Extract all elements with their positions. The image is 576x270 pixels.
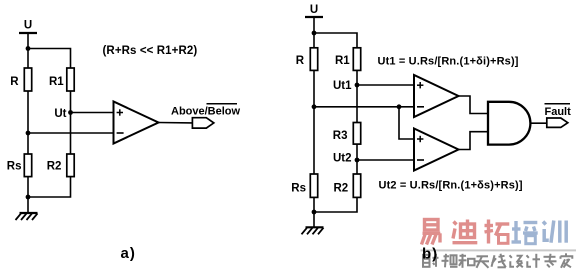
resistor R2: [353, 174, 360, 197]
node Ut: [68, 110, 73, 115]
watermark slogan pin (gray): [442, 254, 458, 267]
node C (ground junction): [26, 195, 31, 200]
svg-text:U: U: [310, 4, 318, 16]
svg-text:Ut: Ut: [54, 108, 66, 120]
svg-text:(R+Rs << R1+R2): (R+Rs << R1+R2): [103, 45, 198, 57]
wire node B to op-amp inverting input: [28, 132, 114, 134]
wire supply to node A: [27, 33, 29, 68]
wire R2 bottom to ground node: [314, 197, 357, 212]
wire Rs bottom to ground node: [313, 197, 315, 227]
svg-text:Above/Below: Above/Below: [171, 106, 241, 118]
wire node E to comparator 1 inverting input: [314, 106, 414, 108]
watermark underline: [421, 249, 576, 251]
resistor R1: [353, 48, 360, 71]
watermark slogan zhuan (gray): [544, 254, 557, 267]
node G (ground junction): [312, 210, 317, 215]
svg-text:R1: R1: [49, 76, 64, 88]
resistor R2: [67, 154, 74, 177]
wire R1 bottom to node Ut1: [356, 70, 358, 122]
watermark slogan she2 (gray): [510, 255, 523, 267]
output flag Above/Below: [192, 118, 213, 128]
AND gate U4: [488, 102, 530, 145]
wire comparator 2 output to AND gate: [459, 132, 489, 150]
node B (left divider tap): [26, 131, 31, 136]
watermark glyph di (pink): [453, 220, 478, 243]
wire R bottom to node B: [27, 91, 29, 154]
watermark slogan ji (gray): [527, 254, 541, 268]
wire node Ut2 to comparator 2 inverting input: [357, 159, 414, 161]
node E (left divider tap): [312, 104, 317, 109]
watermark glyph yi (pink): [422, 220, 441, 245]
svg-text:Rs: Rs: [291, 182, 306, 194]
svg-text:R: R: [296, 55, 305, 67]
wire Rs bottom to ground node: [27, 177, 29, 213]
resistor Rs: [310, 174, 317, 197]
node Ut1: [355, 83, 360, 88]
svg-text:R1: R1: [335, 55, 350, 67]
wire R1 bottom to node Ut: [70, 91, 72, 113]
svg-text:R3: R3: [333, 130, 348, 142]
resistor R: [24, 68, 31, 91]
wire node Ut to op-amp non-inverting input: [71, 112, 114, 114]
resistor R: [310, 48, 317, 71]
svg-text:Ut1 = U.Rs/[Rn.(1+δi)+Rs)]: Ut1 = U.Rs/[Rn.(1+δi)+Rs)]: [378, 55, 519, 67]
wire R3 bottom to node Ut2: [356, 144, 358, 174]
watermark slogan tian (gray): [476, 256, 490, 268]
watermark slogan he (gray): [459, 254, 475, 268]
comparator U3: [414, 129, 459, 171]
watermark glyph xun (blue): [543, 221, 566, 243]
resistor R3: [353, 123, 360, 145]
ground symbol b: [302, 227, 324, 234]
wire supply to node D: [313, 17, 315, 48]
watermark slogan xian (gray): [492, 254, 506, 267]
supply rail symbol U: [19, 32, 37, 34]
comparator U2: [414, 75, 459, 117]
watermark slogan jia (gray): [561, 253, 573, 267]
svg-text:U: U: [24, 20, 32, 32]
wire node Ut down to R2: [70, 113, 72, 155]
ground symbol a: [16, 213, 38, 220]
svg-text:Ut1: Ut1: [333, 80, 352, 92]
op-amp U1 (comparator): [114, 102, 159, 144]
node D (top junction): [312, 31, 317, 36]
node Ut2: [355, 158, 360, 163]
svg-text:R2: R2: [334, 182, 349, 194]
wire comparator 1 output to AND gate: [459, 96, 489, 114]
svg-text:a): a): [121, 245, 136, 262]
watermark slogan she (gray): [423, 254, 439, 267]
svg-text:R: R: [10, 76, 19, 88]
svg-text:Ut2 = U.Rs/[Rn.(1+δs)+Rs)]: Ut2 = U.Rs/[Rn.(1+δs)+Rs)]: [379, 180, 523, 192]
resistor Rs: [24, 154, 31, 177]
wire R bottom to Rs: [313, 70, 315, 174]
wire node F to comparator 2 non-inverting input: [399, 107, 414, 139]
svg-text:Ut2: Ut2: [333, 153, 352, 165]
wire node Ut1 to comparator 1 non-inverting input: [357, 84, 414, 86]
wire node A to R1 branch: [28, 49, 71, 69]
wire R2 bottom to ground node: [28, 177, 71, 197]
svg-text:b): b): [422, 246, 438, 263]
output flag Fault: [547, 118, 568, 127]
svg-text:Fault: Fault: [545, 106, 572, 118]
wire node D to R1 branch: [314, 33, 357, 48]
node A (top junction): [26, 46, 31, 51]
node F (branch to comparator 2): [397, 104, 402, 109]
svg-text:Rs: Rs: [7, 161, 22, 173]
watermark glyph tuo (pink): [485, 220, 510, 244]
svg-text:R2: R2: [47, 161, 62, 173]
watermark glyph pei (blue): [512, 221, 538, 244]
overline on Fault: [545, 103, 571, 105]
wire AND gate output: [531, 122, 548, 124]
wire op-amp output: [159, 122, 193, 124]
resistor R1: [67, 68, 74, 91]
overline on Below: [207, 103, 238, 105]
supply rail symbol U: [305, 16, 323, 18]
